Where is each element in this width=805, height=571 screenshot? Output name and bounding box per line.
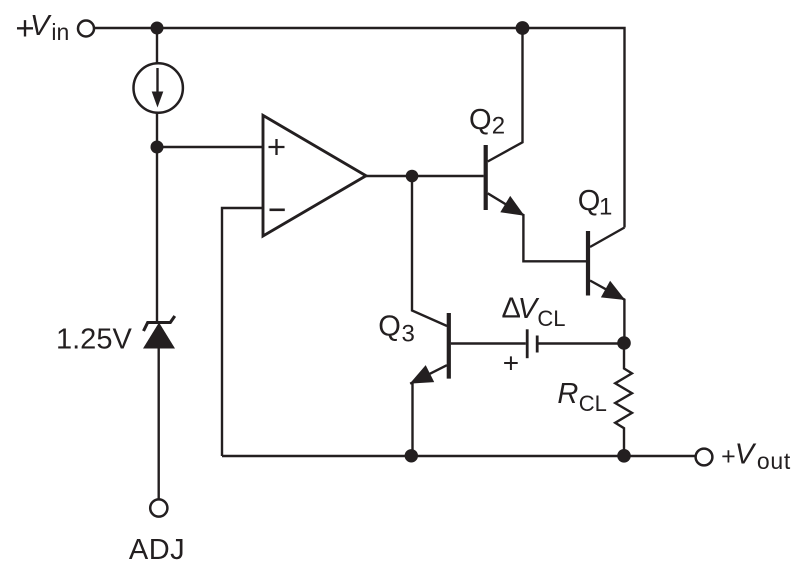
svg-text:+: + bbox=[503, 347, 519, 378]
svg-text:CL: CL bbox=[537, 306, 565, 331]
svg-text:3: 3 bbox=[402, 321, 415, 348]
svg-text:2: 2 bbox=[492, 113, 505, 140]
svg-text:CL: CL bbox=[579, 391, 607, 416]
svg-text:1.25V: 1.25V bbox=[56, 323, 132, 355]
svg-text:Q: Q bbox=[469, 104, 492, 136]
svg-text:1: 1 bbox=[599, 194, 612, 221]
svg-text:V: V bbox=[518, 293, 540, 325]
svg-text:Q: Q bbox=[578, 185, 601, 217]
svg-text:out: out bbox=[757, 448, 791, 474]
svg-text:in: in bbox=[51, 19, 69, 45]
svg-text:V: V bbox=[735, 438, 757, 470]
svg-text:ADJ: ADJ bbox=[129, 534, 185, 566]
svg-text:Q: Q bbox=[378, 311, 401, 343]
svg-text:V: V bbox=[30, 10, 52, 42]
svg-text:R: R bbox=[557, 378, 578, 410]
svg-text:+: + bbox=[721, 443, 736, 471]
